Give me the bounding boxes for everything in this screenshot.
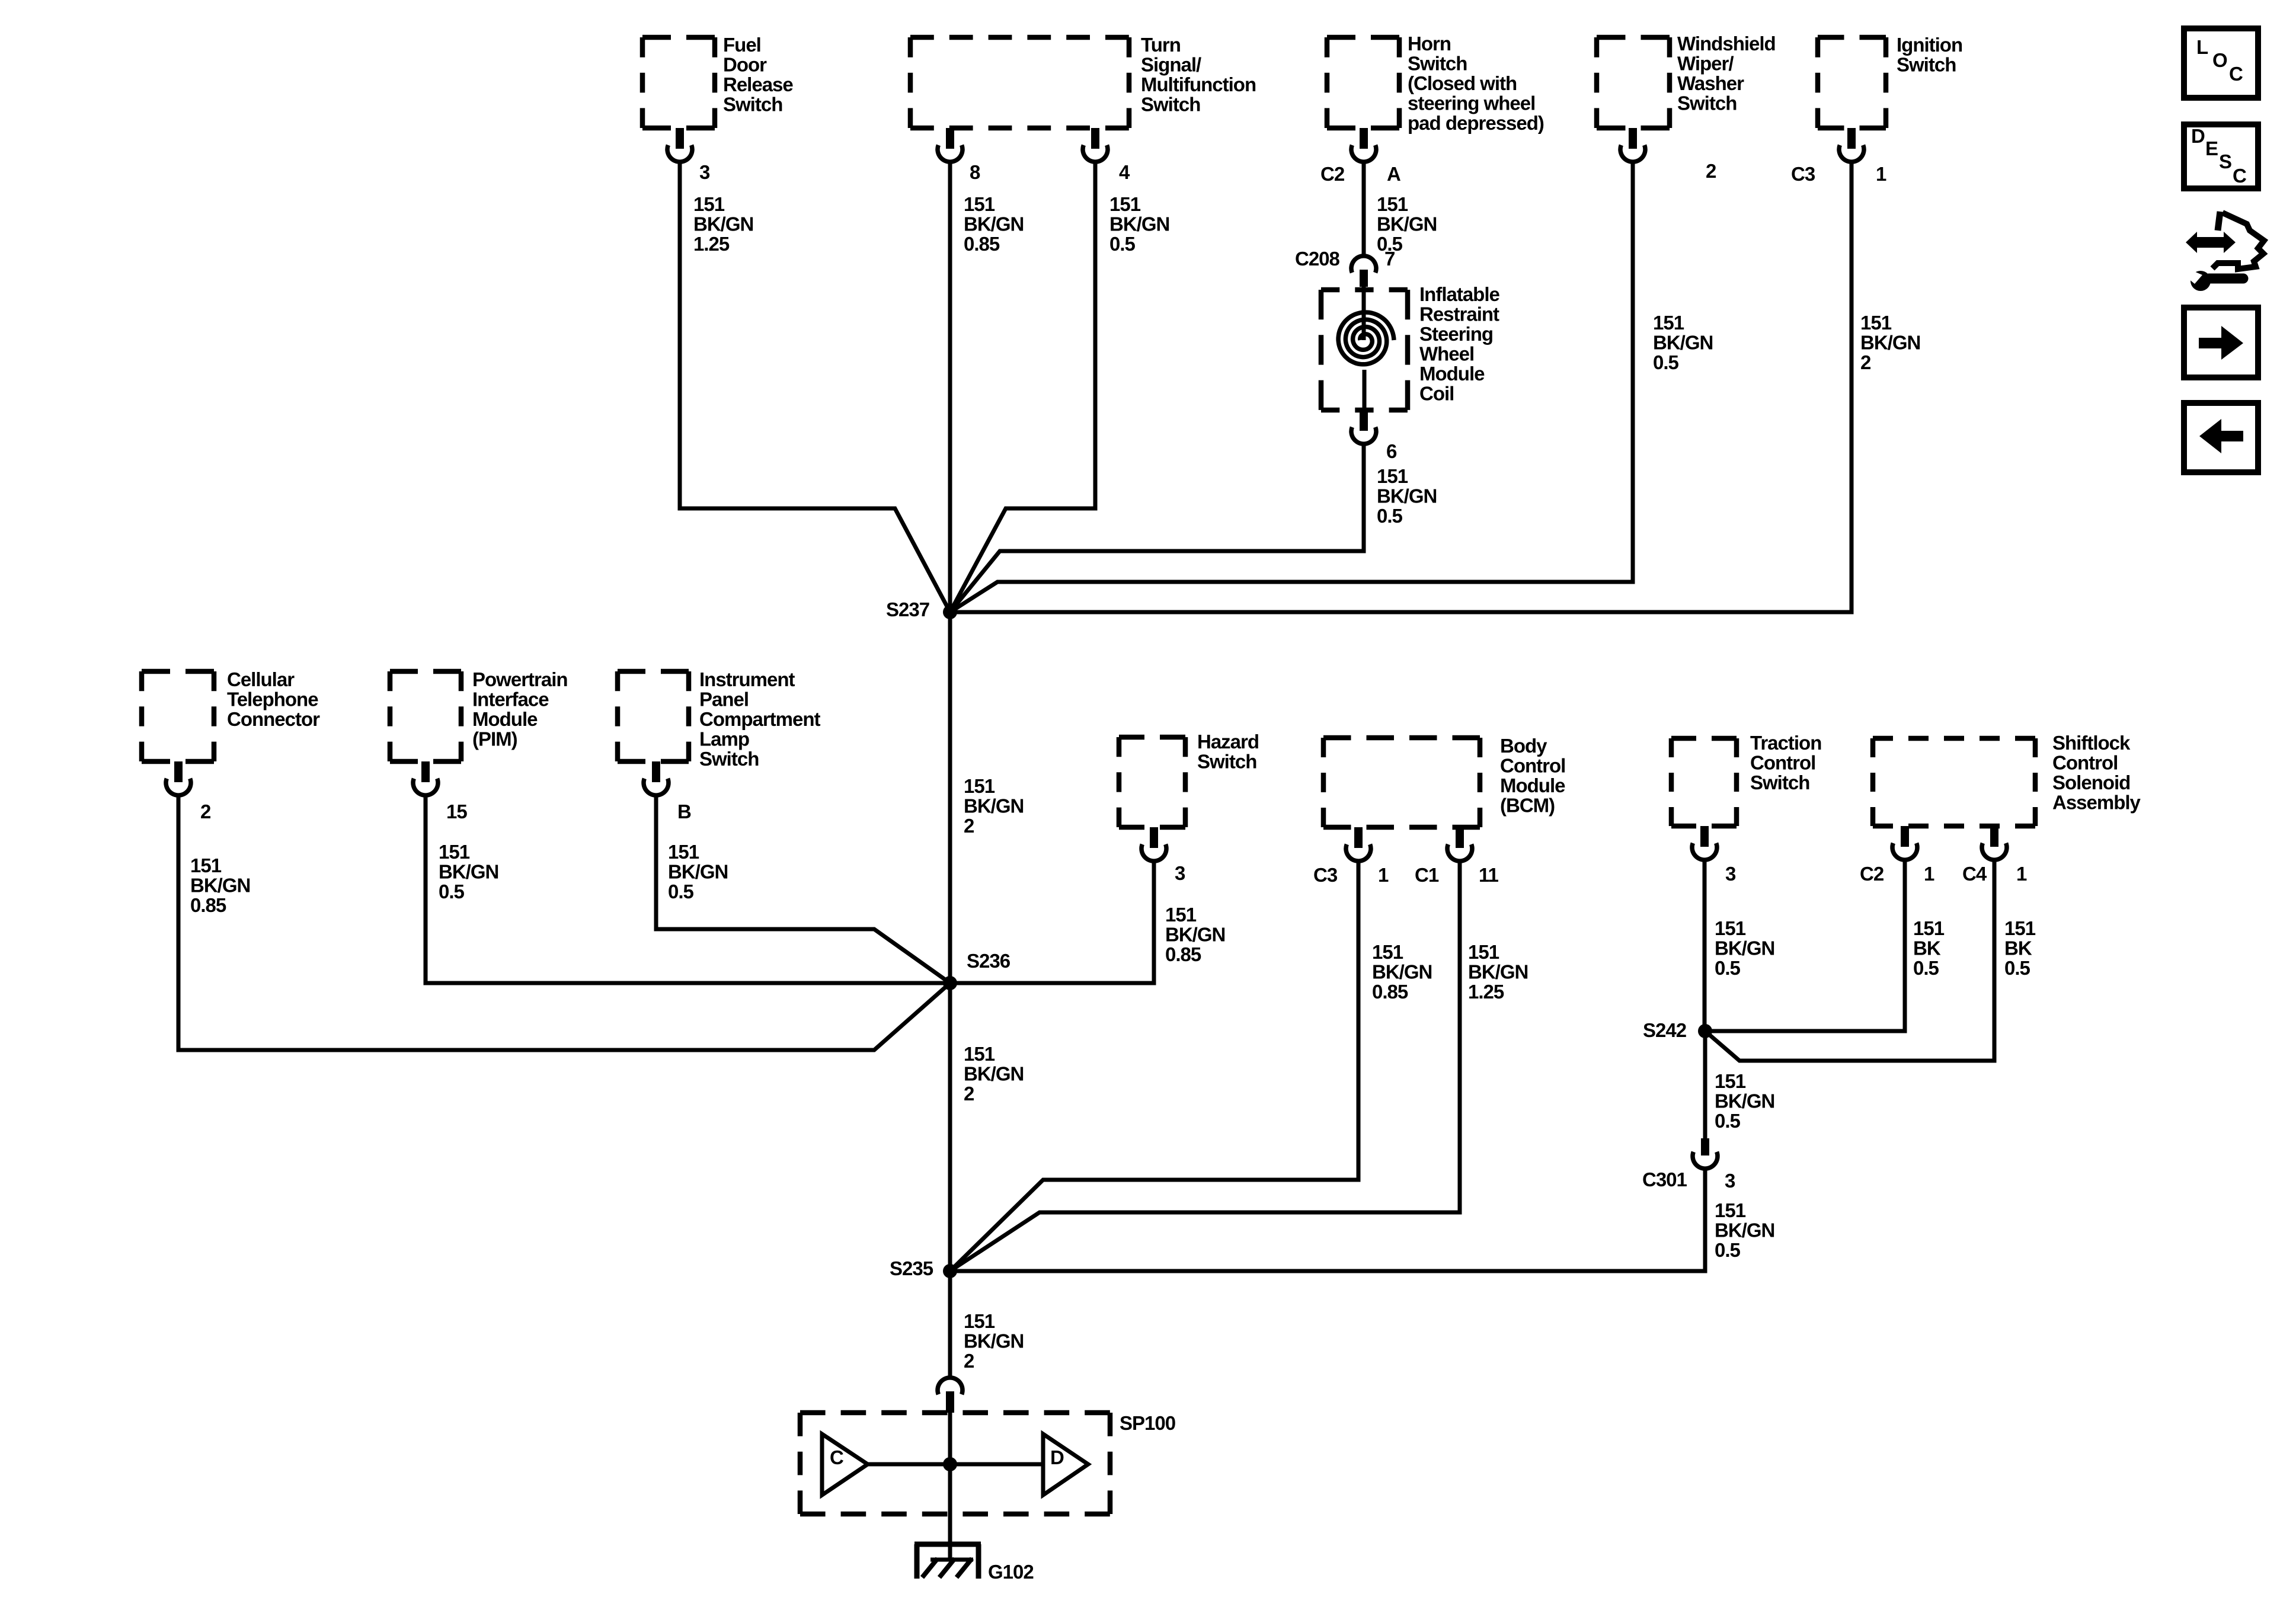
- svg-text:Switch: Switch: [723, 94, 782, 116]
- label S242: [1643, 1019, 1687, 1041]
- wire: cellular telephone connector to S236: [178, 796, 950, 1050]
- svg-text:151: 151: [1715, 1070, 1746, 1092]
- svg-text:151: 151: [1109, 193, 1141, 215]
- connector pin 6 of coil: [1351, 410, 1376, 444]
- svg-text:151: 151: [2004, 917, 2036, 939]
- svg-text:Steering: Steering: [1419, 323, 1493, 345]
- inline connector C208: [1351, 256, 1376, 287]
- pin label C2: [1320, 163, 1345, 185]
- connector pin C3-1 of BCM: [1346, 827, 1371, 861]
- svg-text:0.5: 0.5: [668, 881, 694, 902]
- component box: Cellular Telephone Connector: [142, 671, 214, 761]
- svg-text:BK/GN: BK/GN: [1165, 924, 1225, 946]
- svg-text:BK/GN: BK/GN: [439, 861, 498, 883]
- wire: S242 to C301: [1703, 1031, 1707, 1138]
- svg-text:C4: C4: [1962, 863, 1987, 885]
- svg-text:Cellular: Cellular: [227, 668, 295, 690]
- svg-text:Door: Door: [723, 54, 767, 76]
- svg-text:BK/GN: BK/GN: [964, 213, 1024, 235]
- component box: Powertrain Interface Module (PIM): [390, 671, 461, 761]
- connector pin 15 of PIM: [413, 761, 438, 795]
- label SP100: [1120, 1412, 1175, 1434]
- svg-text:0.85: 0.85: [1165, 943, 1201, 965]
- wire label 151 BK/GN 0.5: [668, 841, 728, 902]
- svg-text:BK/GN: BK/GN: [964, 1330, 1024, 1352]
- wire: PIM to S236: [426, 796, 950, 983]
- svg-text:BK/GN: BK/GN: [964, 1063, 1024, 1085]
- svg-text:Coil: Coil: [1419, 383, 1454, 405]
- svg-text:SP100: SP100: [1120, 1412, 1175, 1434]
- svg-text:BK/GN: BK/GN: [1377, 485, 1437, 507]
- svg-text:D: D: [1050, 1446, 1064, 1468]
- svg-text:Control: Control: [1500, 755, 1565, 777]
- svg-text:Control: Control: [2052, 752, 2118, 774]
- wire: S235 to SP100: [948, 1271, 952, 1377]
- label S236: [967, 950, 1011, 972]
- terminal C triangle: [822, 1434, 868, 1495]
- svg-text:BK/GN: BK/GN: [1715, 1219, 1774, 1241]
- svg-text:Restraint: Restraint: [1419, 303, 1499, 325]
- svg-text:S: S: [2219, 151, 2231, 172]
- svg-text:3: 3: [699, 161, 710, 183]
- svg-text:Interface: Interface: [472, 689, 549, 710]
- label: Inflatable Restraint Steering Wheel Module Coil: [1419, 283, 1500, 405]
- pin number 3: [1175, 862, 1185, 884]
- svg-text:0.85: 0.85: [964, 233, 1000, 255]
- label G102: [988, 1561, 1034, 1583]
- svg-text:151: 151: [1377, 465, 1408, 487]
- pin number 3: [699, 161, 710, 183]
- svg-text:Powertrain: Powertrain: [472, 668, 568, 690]
- wire: shiftlock C2-1 to S242: [1705, 861, 1905, 1031]
- label: Turn Signal/Multifunction Switch: [1141, 34, 1256, 116]
- svg-text:8: 8: [970, 161, 980, 183]
- svg-text:Traction: Traction: [1750, 732, 1821, 754]
- wire: BCM C3-1 to S235: [950, 862, 1358, 1271]
- icon box right arrow: [2184, 308, 2258, 377]
- connector pin A of Horn Switch: [1351, 128, 1376, 162]
- svg-text:D: D: [2191, 125, 2205, 147]
- svg-text:Module: Module: [1500, 774, 1565, 796]
- svg-text:151: 151: [1372, 941, 1403, 963]
- svg-text:Body: Body: [1500, 735, 1547, 757]
- svg-text:0.5: 0.5: [1715, 957, 1741, 979]
- component box: Turn Signal/Multifunction Switch: [910, 37, 1129, 128]
- svg-text:BK/GN: BK/GN: [1715, 1090, 1774, 1112]
- svg-text:Panel: Panel: [699, 689, 749, 710]
- wire: C208 to coil module: [1362, 287, 1366, 332]
- pin number 1: [1378, 864, 1389, 886]
- pin number 2: [200, 801, 211, 822]
- pin label C4: [1962, 863, 1987, 885]
- svg-text:G102: G102: [988, 1561, 1034, 1583]
- svg-text:3: 3: [1725, 863, 1736, 885]
- wire: S237 to S236: [948, 612, 952, 983]
- connector pin C2-1 of shiftlock assembly: [1892, 826, 1917, 860]
- svg-text:BK/GN: BK/GN: [190, 875, 250, 897]
- wire label 151 BK/GN 0.85: [964, 193, 1024, 255]
- svg-text:C3: C3: [1313, 864, 1338, 886]
- svg-text:Multifunction: Multifunction: [1141, 73, 1256, 95]
- svg-text:1.25: 1.25: [693, 233, 730, 255]
- label: Ignition Switch: [1897, 34, 1962, 76]
- splice S235: [943, 1264, 957, 1278]
- wire into coil center: [1362, 287, 1366, 340]
- label: Body Control Module (BCM): [1500, 735, 1565, 817]
- pin number 11: [1479, 864, 1499, 886]
- connector pin 3 of Hazard Switch: [1141, 827, 1166, 861]
- pin number 3: [1725, 1170, 1735, 1192]
- svg-text:2: 2: [964, 815, 974, 837]
- connector pin 2 of Wiper/Washer Switch: [1620, 128, 1645, 162]
- svg-text:(Closed with: (Closed with: [1408, 72, 1517, 94]
- pin number 1: [2016, 863, 2027, 885]
- label C301: [1642, 1169, 1687, 1190]
- wire: hazard switch to S236: [950, 862, 1154, 983]
- component box: Inflatable Restraint Steering Wheel Module Coil: [1321, 290, 1408, 410]
- svg-text:BK/GN: BK/GN: [1377, 213, 1437, 235]
- connector pin 8 of Turn Signal switch: [938, 128, 962, 162]
- svg-text:Switch: Switch: [1750, 772, 1809, 793]
- terminal D letter: [1050, 1446, 1064, 1468]
- svg-text:Solenoid: Solenoid: [2052, 772, 2130, 793]
- component box: Hazard Switch: [1119, 737, 1185, 827]
- svg-text:0.5: 0.5: [1377, 505, 1403, 527]
- svg-text:Switch: Switch: [1408, 53, 1467, 75]
- terminal D triangle: [1043, 1434, 1088, 1495]
- svg-text:BK/GN: BK/GN: [1860, 332, 1920, 354]
- svg-text:Switch: Switch: [1677, 92, 1737, 114]
- svg-text:151: 151: [693, 193, 725, 215]
- component box: Body Control Module (BCM): [1323, 738, 1480, 827]
- svg-text:BK/GN: BK/GN: [1372, 961, 1432, 983]
- svg-text:151: 151: [439, 841, 470, 863]
- pin number 2: [1706, 160, 1716, 182]
- svg-text:BK/GN: BK/GN: [1715, 937, 1774, 959]
- wire label 151 BK/GN 0.5: [439, 841, 498, 902]
- ground symbol G102: [914, 1544, 981, 1579]
- wire label 151 BK/GN 0.5: [1715, 917, 1774, 979]
- pin label C2: [1860, 863, 1884, 885]
- icon box DESC: [2184, 124, 2258, 188]
- terminal C letter: [830, 1446, 843, 1468]
- label: Instrument Panel Compartment Lamp Switch: [699, 668, 821, 770]
- pin number 7: [1384, 248, 1395, 270]
- svg-text:BK/GN: BK/GN: [1653, 332, 1713, 354]
- label S235: [890, 1257, 933, 1279]
- svg-text:BK: BK: [1913, 937, 1941, 959]
- svg-text:151: 151: [964, 1043, 995, 1065]
- label: Cellular Telephone Connector: [227, 668, 320, 730]
- svg-text:S235: S235: [890, 1257, 933, 1279]
- svg-text:0.5: 0.5: [1913, 957, 1939, 979]
- svg-text:Telephone: Telephone: [227, 689, 318, 710]
- component box: Ignition Switch: [1818, 37, 1886, 128]
- svg-text:0.5: 0.5: [1715, 1239, 1741, 1261]
- svg-text:S236: S236: [967, 950, 1011, 972]
- label C301 connector C208: [1295, 248, 1340, 270]
- svg-text:Ignition: Ignition: [1897, 34, 1962, 56]
- svg-text:Lamp: Lamp: [699, 728, 749, 750]
- wire: ignition switch to S237: [950, 163, 1851, 612]
- svg-text:3: 3: [1175, 862, 1185, 884]
- label: Hazard Switch: [1197, 731, 1259, 773]
- svg-text:151: 151: [964, 193, 995, 215]
- svg-text:BK: BK: [2004, 937, 2032, 959]
- svg-text:11: 11: [1479, 864, 1499, 886]
- wire label 151 BK/GN 2: [1860, 312, 1920, 373]
- svg-text:C208: C208: [1295, 248, 1340, 270]
- svg-text:C: C: [2233, 165, 2246, 187]
- wire: fuel door release switch to S237: [680, 163, 950, 612]
- pin number 8: [970, 161, 980, 183]
- svg-text:0.5: 0.5: [439, 881, 465, 902]
- svg-text:S242: S242: [1643, 1019, 1687, 1041]
- svg-text:1: 1: [2016, 863, 2027, 885]
- svg-text:BK/GN: BK/GN: [693, 213, 753, 235]
- svg-text:pad depressed): pad depressed): [1408, 112, 1544, 134]
- svg-text:Wheel: Wheel: [1419, 343, 1474, 365]
- wire label 151 BK/GN 0.5: [1653, 312, 1713, 373]
- wire label 151 BK 0.5: [2004, 917, 2036, 979]
- svg-text:151: 151: [1913, 917, 1945, 939]
- svg-text:2: 2: [1860, 351, 1871, 373]
- splice S237: [943, 605, 957, 619]
- wire: shiftlock C4-1 to S242: [1705, 861, 1994, 1061]
- svg-text:steering wheel: steering wheel: [1408, 92, 1535, 114]
- svg-text:4: 4: [1119, 161, 1130, 183]
- svg-text:Switch: Switch: [699, 748, 759, 770]
- svg-text:151: 151: [1715, 1199, 1746, 1221]
- svg-text:A: A: [1387, 163, 1400, 185]
- wire: C301 to S235: [950, 1170, 1705, 1271]
- component box: Horn Switch: [1327, 37, 1399, 128]
- svg-text:O: O: [2212, 49, 2227, 71]
- wire label 151 BK/GN 2 (S235 to SP100): [964, 1310, 1024, 1372]
- wire through SP100: [948, 1413, 952, 1514]
- wire label 151 BK/GN 0.5 (S242 to C301): [1715, 1070, 1774, 1132]
- wire label 151 BK/GN 2 (S236 to S235): [964, 1043, 1024, 1105]
- svg-text:Wiper/: Wiper/: [1677, 53, 1734, 75]
- label: Windshield Wiper/Washer Switch: [1677, 33, 1776, 114]
- svg-text:Compartment: Compartment: [699, 708, 821, 730]
- connector pin 2 of Cellular Telephone Connector: [166, 761, 191, 795]
- connector pin 4 of Turn Signal switch: [1083, 128, 1108, 162]
- label: Powertrain Interface Module (PIM): [472, 668, 568, 750]
- svg-text:6: 6: [1386, 440, 1397, 462]
- icon: vehicle service (arrows, car, wrench): [2186, 212, 2264, 291]
- svg-text:Turn: Turn: [1141, 34, 1181, 56]
- svg-text:151: 151: [1165, 904, 1197, 926]
- inline connector at SP100: [938, 1378, 962, 1413]
- svg-text:S237: S237: [886, 598, 929, 620]
- svg-text:1: 1: [1378, 864, 1389, 886]
- svg-text:1.25: 1.25: [1468, 981, 1504, 1003]
- svg-text:C2: C2: [1860, 863, 1884, 885]
- icon box LOC: [2184, 28, 2258, 98]
- wire: S236 to S235: [948, 983, 952, 1271]
- wire: turn signal pin 4 to S237: [950, 163, 1095, 612]
- svg-text:Module: Module: [1419, 363, 1485, 385]
- svg-text:BK/GN: BK/GN: [668, 861, 728, 883]
- wire label 151 BK/GN 0.5 (C301 to S235): [1715, 1199, 1774, 1261]
- svg-text:151: 151: [1377, 193, 1408, 215]
- connector pin C1-11 of BCM: [1447, 827, 1472, 861]
- component box: Traction Control Switch: [1671, 738, 1737, 826]
- splice S236: [943, 976, 957, 990]
- svg-text:151: 151: [964, 1310, 995, 1332]
- svg-text:Control: Control: [1750, 752, 1815, 774]
- connector pin C4-1 of shiftlock assembly: [1982, 826, 2007, 860]
- svg-text:C: C: [2229, 63, 2243, 85]
- svg-text:2: 2: [964, 1083, 974, 1105]
- component box: Windshield Wiper/Washer Switch: [1597, 37, 1670, 128]
- connector pin 1 of Ignition Switch: [1839, 128, 1864, 162]
- svg-text:151: 151: [668, 841, 699, 863]
- svg-text:Horn: Horn: [1408, 33, 1451, 55]
- wire label 151 BK/GN 0.5: [1377, 465, 1437, 527]
- label: Traction Control Switch: [1750, 732, 1821, 793]
- pin number A: [1387, 163, 1400, 185]
- wire label 151 BK/GN 0.5: [1377, 193, 1437, 255]
- svg-text:151: 151: [964, 775, 995, 797]
- svg-text:151: 151: [190, 854, 222, 876]
- svg-text:Instrument: Instrument: [699, 668, 795, 690]
- wire: coil to pin 6: [1363, 370, 1367, 410]
- wire label 151 BK/GN 1.25: [693, 193, 753, 255]
- component box: Shiftlock Control Solenoid Assembly: [1873, 738, 2035, 826]
- component box: Fuel Door Release Switch: [642, 37, 715, 128]
- svg-text:C1: C1: [1415, 864, 1439, 886]
- svg-text:0.5: 0.5: [1653, 351, 1679, 373]
- svg-text:Switch: Switch: [1141, 94, 1200, 116]
- svg-text:7: 7: [1384, 248, 1395, 270]
- svg-text:Hazard: Hazard: [1197, 731, 1259, 753]
- svg-text:151: 151: [1468, 941, 1499, 963]
- pin number 4: [1119, 161, 1130, 183]
- wire label 151 BK/GN 0.85: [1372, 941, 1432, 1003]
- pin label C3: [1791, 163, 1815, 185]
- svg-text:Switch: Switch: [1197, 751, 1256, 773]
- wire label 151 BK/GN 0.85: [190, 854, 250, 916]
- svg-text:151: 151: [1653, 312, 1684, 334]
- wire: horn switch to C208: [1362, 163, 1366, 255]
- svg-text:Assembly: Assembly: [2052, 792, 2141, 814]
- svg-text:BK/GN: BK/GN: [1468, 961, 1528, 983]
- wire: coil pin 6 to S237: [950, 445, 1364, 612]
- svg-text:2: 2: [964, 1350, 974, 1372]
- svg-text:BK/GN: BK/GN: [964, 795, 1024, 817]
- svg-text:0.5: 0.5: [2004, 957, 2030, 979]
- component box: Instrument Panel Compartment Lamp Switch: [618, 671, 689, 761]
- svg-text:C: C: [830, 1446, 843, 1468]
- wire: SP100 to G102: [948, 1514, 952, 1561]
- svg-text:151: 151: [1860, 312, 1892, 334]
- connector pin 3 of Traction Control Switch: [1692, 826, 1717, 860]
- icon box left arrow: [2184, 403, 2258, 472]
- svg-text:Switch: Switch: [1897, 54, 1956, 76]
- label: Horn Switch (Closed with steering wheel pad depressed): [1408, 33, 1544, 134]
- wire label 151 BK/GN 0.5: [1109, 193, 1169, 255]
- connector pin B of lamp switch: [644, 761, 669, 795]
- svg-text:C2: C2: [1320, 163, 1345, 185]
- svg-text:0.85: 0.85: [190, 894, 226, 916]
- wire: BCM C1-11 to S235: [950, 862, 1460, 1271]
- coil symbol (clockspring spiral): [1338, 312, 1394, 364]
- pin label C1: [1415, 864, 1439, 886]
- connector pin 3 of Fuel Door Release Switch: [667, 128, 692, 162]
- svg-text:0.5: 0.5: [1109, 233, 1136, 255]
- svg-text:Washer: Washer: [1677, 72, 1744, 94]
- pin number 1: [1924, 863, 1934, 885]
- svg-text:2: 2: [1706, 160, 1716, 182]
- svg-text:Windshield: Windshield: [1677, 33, 1776, 55]
- pin number 1: [1876, 163, 1886, 185]
- svg-text:C301: C301: [1642, 1169, 1687, 1190]
- svg-text:1: 1: [1876, 163, 1886, 185]
- svg-text:15: 15: [446, 801, 467, 822]
- junction dot in SP100: [943, 1457, 957, 1471]
- svg-text:Module: Module: [472, 708, 538, 730]
- svg-text:Fuel: Fuel: [723, 34, 761, 56]
- svg-text:1: 1: [1924, 863, 1934, 885]
- svg-text:Signal/: Signal/: [1141, 54, 1201, 76]
- svg-text:3: 3: [1725, 1170, 1735, 1192]
- svg-text:0.5: 0.5: [1715, 1110, 1741, 1132]
- bus bar C to D: [868, 1462, 1043, 1467]
- svg-text:B: B: [677, 801, 691, 822]
- wire: turn signal pin 8 to S237: [948, 163, 952, 612]
- splice S242: [1698, 1024, 1712, 1038]
- wire: wiper switch to S237: [950, 163, 1633, 612]
- label: Fuel Door Release Switch: [723, 34, 793, 116]
- wire label 151 BK/GN 1.25: [1468, 941, 1528, 1003]
- splice pack box SP100: [800, 1413, 1110, 1514]
- inline connector C301: [1693, 1138, 1718, 1169]
- svg-text:Release: Release: [723, 73, 793, 95]
- label S237: [886, 598, 929, 620]
- svg-text:Connector: Connector: [227, 708, 320, 730]
- pin number B: [677, 801, 691, 822]
- svg-text:Shiftlock: Shiftlock: [2052, 732, 2131, 754]
- svg-text:BK/GN: BK/GN: [1109, 213, 1169, 235]
- svg-text:(BCM): (BCM): [1500, 795, 1555, 817]
- pin number 3: [1725, 863, 1736, 885]
- svg-text:151: 151: [1715, 917, 1746, 939]
- svg-text:0.85: 0.85: [1372, 981, 1408, 1003]
- label: Shiftlock Control Solenoid Assembly: [2052, 732, 2141, 814]
- pin label C3: [1313, 864, 1338, 886]
- wire label 151 BK 0.5: [1913, 917, 1945, 979]
- svg-text:Inflatable: Inflatable: [1419, 283, 1500, 305]
- pin number 6: [1386, 440, 1397, 462]
- svg-text:E: E: [2205, 137, 2218, 159]
- svg-text:(PIM): (PIM): [472, 728, 517, 750]
- svg-text:C3: C3: [1791, 163, 1815, 185]
- wire label 151 BK/GN 2 (S237 to S236): [964, 775, 1024, 837]
- svg-text:2: 2: [200, 801, 211, 822]
- wire label 151 BK/GN 0.85: [1165, 904, 1225, 965]
- wire: lamp switch to S236: [656, 796, 950, 983]
- svg-text:L: L: [2196, 36, 2208, 58]
- pin number 15: [446, 801, 467, 822]
- wire: traction control switch to S242: [1703, 861, 1707, 1031]
